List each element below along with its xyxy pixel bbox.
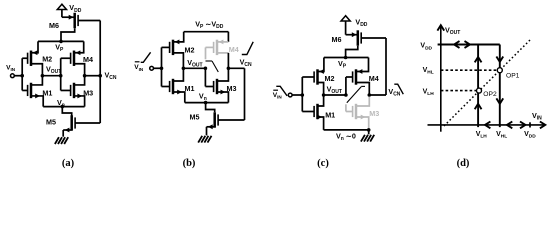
svg-text:M6: M6 [332, 35, 342, 44]
svg-text:(a): (a) [62, 158, 75, 169]
svg-text:M6: M6 [49, 21, 59, 30]
svg-text:M3: M3 [369, 109, 379, 118]
svg-text:M2: M2 [325, 74, 335, 83]
svg-text:M2: M2 [185, 45, 195, 54]
svg-text:M1: M1 [325, 110, 335, 119]
svg-text:M4: M4 [229, 45, 239, 54]
svg-text:M4: M4 [369, 74, 379, 83]
svg-text:M1: M1 [42, 89, 52, 98]
svg-text:M3: M3 [227, 84, 237, 93]
svg-text:M3: M3 [83, 89, 93, 98]
svg-text:(c): (c) [317, 158, 329, 169]
svg-text:M5: M5 [46, 117, 56, 126]
svg-text:M4: M4 [83, 55, 93, 64]
svg-text:M5: M5 [190, 113, 200, 122]
svg-text:M2: M2 [42, 54, 52, 63]
svg-text:OP2: OP2 [483, 91, 497, 98]
svg-text:OP1: OP1 [506, 72, 520, 79]
svg-text:M1: M1 [185, 84, 195, 93]
svg-text:(d): (d) [457, 158, 470, 169]
svg-text:(b): (b) [183, 158, 196, 169]
